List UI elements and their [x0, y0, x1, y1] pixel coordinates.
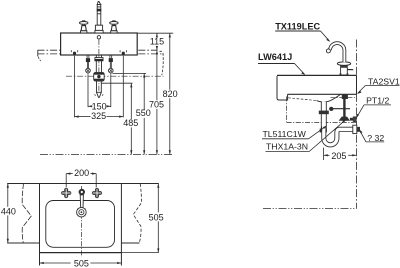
- phantom trap cover left edge (dash-dot): [286, 97, 288, 123]
- spout tube (plan): [80, 195, 83, 208]
- dimension 550: [143, 73, 145, 154]
- counter front edge right segment: [121, 242, 139, 244]
- basin back edge at wall: [356, 75, 358, 94]
- extension line left bolt down: [74, 56, 76, 118]
- svg-text:TA2SV1: TA2SV1: [368, 76, 400, 86]
- break line left (zigzag): [22, 184, 31, 244]
- dimension 150: [88, 105, 111, 107]
- lavatory front edge plan: [40, 252, 122, 254]
- basin deck (side view): [277, 74, 357, 76]
- counter front edge left segment: [7, 242, 39, 244]
- supply center line at wall (dash-dot): [331, 97, 357, 99]
- drain tailpiece and bottle trap (front view): [94, 55, 105, 97]
- dimension 200: [66, 173, 96, 188]
- svg-text:TL511C1W: TL511C1W: [263, 129, 307, 139]
- floor line front view (dash-dot): [40, 154, 174, 156]
- hanger bracket right end (hidden): [160, 50, 164, 52]
- basin underside line to wall: [288, 93, 357, 95]
- svg-text:505: 505: [149, 212, 164, 222]
- svg-text:THX1A-3N: THX1A-3N: [266, 141, 308, 151]
- extension line from fixture top to 820 dim: [137, 32, 173, 34]
- hanger bolt left: [71, 50, 77, 55]
- dimension 505 bottom (plan width): [40, 262, 122, 264]
- svg-text:440: 440: [1, 206, 16, 216]
- svg-text:325: 325: [91, 111, 106, 121]
- dimension 485: [130, 83, 132, 154]
- svg-text:? 32: ? 32: [367, 133, 384, 143]
- gooseneck spout (side view): [330, 43, 344, 62]
- wall hanger center line upper (dash-dot): [38, 49, 158, 51]
- supply wall escutcheon: [353, 116, 357, 122]
- faucet cross handle left (plan): [61, 188, 71, 198]
- svg-text:115: 115: [150, 37, 164, 47]
- trap inlet nut: [320, 129, 327, 133]
- tailpiece slip nut: [319, 111, 329, 115]
- dimension 115: [156, 33, 158, 50]
- dimension 705: [156, 50, 158, 154]
- spout column front view: [95, 2, 103, 34]
- faucet handle left (front view): [79, 21, 88, 33]
- floor line side view (dash-dot): [263, 207, 357, 209]
- extension line right bolt down: [122, 56, 124, 118]
- drain tailpiece (side view): [321, 101, 326, 129]
- dimension 205: [324, 148, 357, 160]
- extension line left supply down: [87, 75, 89, 108]
- supply stop right (front view): [109, 55, 114, 74]
- svg-text:205: 205: [331, 151, 346, 161]
- faucet handle lever tick: [347, 69, 353, 71]
- extension line right supply down: [110, 75, 112, 108]
- dimension 820: [169, 33, 171, 154]
- basin inner bowl (rounded rect): [46, 201, 115, 248]
- break line right (zigzag): [133, 184, 141, 244]
- svg-text:705: 705: [149, 99, 164, 109]
- stop valve handle knob: [329, 107, 333, 111]
- faucet handle right (front view): [110, 21, 119, 33]
- plan center line (dash-dot): [81, 186, 83, 257]
- riser nut under basin: [342, 95, 348, 99]
- stop valve handle bar: [331, 108, 350, 110]
- stop valve body TA2SV1 (elbow to wall): [339, 117, 350, 121]
- faucet TX119LEC base body on deck: [341, 65, 348, 75]
- wall line plan view: [7, 183, 159, 185]
- phantom bowl hidden line (dashed): [288, 98, 316, 101]
- bowl underside curve: [317, 94, 341, 102]
- center line of fixture (dash-dot): [98, 40, 100, 97]
- dimension 440: [7, 184, 9, 244]
- svg-text:TX119LEC: TX119LEC: [275, 21, 320, 31]
- supply center line (dash-dot): [66, 75, 164, 77]
- svg-text:505: 505: [74, 258, 89, 268]
- basin front apron (side view): [277, 76, 288, 100]
- faucet cross handle right (plan): [92, 188, 102, 198]
- spout outlet circle (plan): [77, 207, 87, 217]
- trap wall stub pipe: [357, 127, 360, 132]
- wall hanger center line lower (dash-dot): [38, 53, 164, 55]
- svg-text:485: 485: [123, 118, 138, 128]
- lavatory left edge plan: [39, 184, 41, 266]
- lavatory right edge plan: [120, 184, 122, 266]
- P-trap TL511C1W (side view): [324, 127, 353, 145]
- svg-text:PT1/2: PT1/2: [366, 95, 389, 105]
- supply stop left (front view): [86, 55, 91, 74]
- dimension 325: [75, 116, 124, 118]
- svg-text:820: 820: [163, 89, 178, 99]
- hanger bolt right: [120, 50, 126, 55]
- lavatory body front view: [61, 33, 138, 55]
- extension line 485 (drain outlet height): [102, 82, 133, 84]
- svg-text:150: 150: [92, 101, 107, 111]
- extension line 550 (supply height): [113, 72, 147, 74]
- dimension 505 right (plan depth): [157, 184, 159, 253]
- svg-text:LW641J: LW641J: [258, 52, 292, 62]
- supply riser pipe THX1A-3N: [343, 95, 345, 117]
- faucet escutcheon flange (ellipse): [337, 62, 350, 65]
- phantom trap cover bottom (dash-dot): [287, 121, 357, 123]
- hanger bracket left end (hidden): [37, 50, 39, 56]
- faucet base feet: [340, 73, 342, 75]
- trap wall flange: [353, 125, 357, 133]
- mounting hole circle on face: [97, 36, 100, 39]
- spout shank (plan): [79, 189, 85, 195]
- svg-text:200: 200: [74, 168, 89, 178]
- svg-text:550: 550: [136, 108, 151, 118]
- spout tip nozzle: [326, 49, 330, 53]
- wall center line (dash-dot): [356, 40, 358, 209]
- front edge extension to 505 dim: [121, 252, 158, 254]
